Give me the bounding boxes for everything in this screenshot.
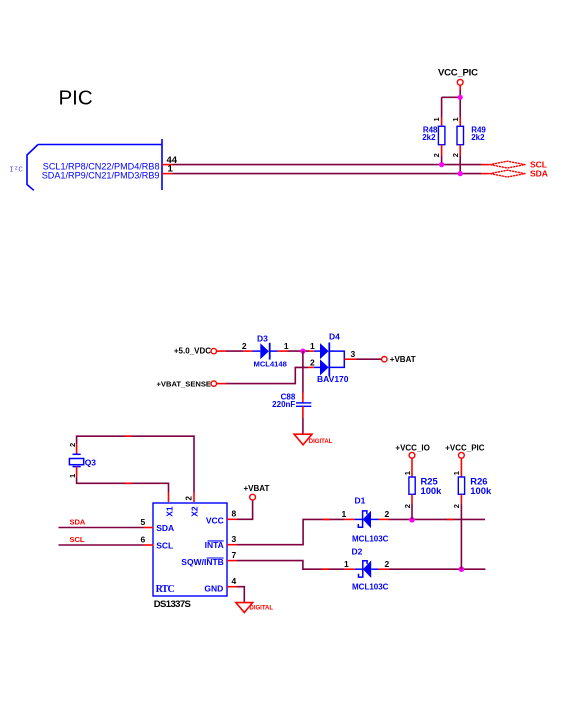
junction dot D3/D4/C88 (300, 349, 305, 354)
pin stub X1 (168, 493, 170, 503)
svg-text:SDA: SDA (70, 517, 86, 526)
power symbol +VBAT (382, 355, 416, 364)
wire D1 pin2 to R25 junction (379, 518, 389, 520)
pin stub 6 (144, 544, 154, 546)
svg-text:VCC: VCC (206, 515, 224, 525)
svg-text:2k2: 2k2 (422, 133, 436, 142)
ground DIGITAL (C88) (294, 434, 333, 445)
junction dot VCC_PIC branch (458, 95, 463, 100)
svg-text:2k2: 2k2 (471, 133, 485, 142)
pin stub 8 (VCC) (227, 518, 237, 520)
power symbol +5.0_VDC (174, 346, 217, 355)
junction dot R48/SCL (439, 162, 444, 167)
svg-text:2: 2 (385, 509, 390, 519)
svg-text:INTA: INTA (205, 540, 224, 550)
resistor R25 (403, 458, 442, 519)
svg-text:100k: 100k (421, 485, 443, 496)
crystal Q3 (68, 443, 97, 478)
power symbol +VBAT (RTC) (244, 484, 270, 500)
dual diode D4 BAV170 (314, 343, 345, 377)
svg-text:D3: D3 (257, 333, 268, 343)
svg-text:D2: D2 (352, 547, 363, 557)
svg-text:GND: GND (204, 583, 223, 593)
wire D4 pin3 to +VBAT (344, 358, 356, 360)
junction dot R49/SDA (458, 171, 463, 176)
wire VCC to +VBAT (237, 500, 253, 519)
wire VCC_PIC down (459, 85, 461, 90)
svg-text:6: 6 (141, 535, 146, 545)
svg-text:3: 3 (232, 534, 237, 544)
diode D1 MCL103C (schottky, cathode left) (355, 511, 379, 529)
wire +5.0_VDC to D3 (217, 350, 227, 352)
svg-text:1: 1 (344, 559, 349, 569)
resistor R49 (451, 117, 487, 173)
svg-text:MCL103C: MCL103C (352, 582, 389, 591)
svg-text:1: 1 (310, 341, 315, 351)
svg-text:2: 2 (385, 559, 390, 569)
svg-text:2: 2 (242, 341, 247, 351)
svg-text:100k: 100k (470, 485, 492, 496)
power symbol VCC_PIC (438, 68, 478, 86)
diode D2 MCL103C (schottky, cathode left) (355, 560, 379, 578)
svg-text:Q3: Q3 (85, 457, 97, 467)
svg-text:VCC_PIC: VCC_PIC (438, 68, 478, 79)
wire SCL net (173, 164, 482, 166)
svg-text:2: 2 (451, 153, 460, 157)
pin stub 4 (GND) (227, 586, 237, 588)
pin stub 7 (SQW/INTB) (227, 560, 237, 562)
svg-text:2: 2 (185, 496, 194, 501)
resistor R48 (422, 117, 445, 164)
pin name INTA (overline) (205, 540, 224, 550)
svg-text:SCL: SCL (156, 540, 173, 550)
svg-text:1: 1 (342, 509, 347, 519)
svg-text:3: 3 (351, 349, 356, 359)
svg-text:4: 4 (232, 576, 237, 586)
svg-text:+VBAT_SENSE: +VBAT_SENSE (156, 379, 211, 388)
junction dot D2/R26 (459, 566, 465, 572)
svg-text:1: 1 (284, 341, 289, 351)
svg-text:2: 2 (310, 357, 315, 367)
diode D3 (253, 343, 278, 360)
svg-text:+VCC_IO: +VCC_IO (395, 444, 429, 453)
svg-text:DIGITAL: DIGITAL (250, 605, 274, 611)
power symbol +VCC_PIC (445, 444, 485, 459)
svg-text:+VCC_PIC: +VCC_PIC (445, 444, 485, 453)
ground DIGITAL (RTC) (236, 603, 273, 613)
wire joint mark (125, 435, 132, 437)
IC U? RTC DS1337S body (153, 503, 227, 596)
svg-text:D1: D1 (355, 496, 366, 506)
pin stub off-page SCL (481, 164, 489, 166)
wire GND to ground (237, 587, 244, 603)
junction dot D1/R25 (409, 517, 415, 523)
wire SCL to pin6 (59, 544, 144, 546)
svg-text:I²C: I²C (9, 166, 23, 175)
svg-text:MCL103C: MCL103C (352, 534, 389, 543)
svg-text:SDA: SDA (156, 523, 174, 533)
pin stub SCL (pin 44) (162, 164, 173, 166)
svg-text:+VBAT: +VBAT (390, 355, 416, 364)
svg-text:X1: X1 (164, 506, 174, 517)
pin name SQW/INTB (overline on INTB) (181, 557, 224, 567)
svg-text:1: 1 (68, 474, 77, 478)
wire SDA net (173, 173, 482, 175)
wire R25 junction to right end (412, 518, 485, 520)
pin stub off-page SDA (481, 173, 489, 175)
svg-text:2: 2 (68, 443, 77, 447)
wire joint mark (323, 518, 330, 520)
wire D2 pin2 to R26 junction (379, 568, 389, 570)
power symbol +VBAT_SENSE (156, 379, 216, 388)
wire D3 to junction (278, 350, 288, 352)
svg-text:RTC: RTC (156, 584, 175, 595)
svg-text:SQW/INTB: SQW/INTB (181, 557, 224, 567)
pin stub D2 pin1 (345, 568, 355, 570)
svg-text:2: 2 (403, 504, 412, 508)
svg-text:PIC: PIC (59, 86, 93, 109)
svg-text:220nF: 220nF (272, 400, 295, 409)
svg-text:2: 2 (432, 153, 441, 157)
svg-text:+5.0_VDC: +5.0_VDC (174, 346, 211, 355)
wire Q3 pin2 to X2 (77, 436, 194, 492)
wire SDA to pin5 (59, 527, 144, 529)
svg-text:+VBAT: +VBAT (244, 484, 270, 493)
PIC block outline (27, 139, 162, 190)
svg-text:DS1337S: DS1337S (154, 599, 191, 610)
svg-text:8: 8 (232, 509, 237, 519)
off-page connector SDA (490, 170, 525, 177)
pin stub D1 pin1 (345, 518, 355, 520)
svg-text:BAV170: BAV170 (317, 374, 349, 384)
svg-text:2: 2 (452, 504, 461, 508)
wire joint mark (125, 482, 132, 484)
svg-text:D4: D4 (329, 331, 340, 341)
svg-text:DIGITAL: DIGITAL (309, 439, 333, 445)
svg-text:SCL: SCL (70, 535, 85, 544)
wire R26 junction to right end (461, 568, 485, 570)
wire SQW/INTB to D2 (237, 561, 345, 570)
svg-text:MCL4148: MCL4148 (254, 360, 287, 369)
svg-text:X2: X2 (190, 506, 200, 517)
svg-text:7: 7 (232, 550, 237, 560)
wire C88 to ground (302, 406, 304, 418)
wire +VBAT_SENSE to D4 pin2 (217, 367, 314, 383)
wire joint mark (322, 568, 329, 570)
resistor R26 (452, 458, 492, 569)
power symbol +VCC_IO (395, 444, 429, 459)
wire junction down to C88 (302, 351, 304, 392)
svg-text:1: 1 (432, 117, 441, 121)
pin stub SDA (pin 1) (162, 173, 173, 175)
svg-text:1: 1 (451, 117, 460, 121)
off-page connector SCL (490, 161, 525, 168)
pin stub 5 (144, 527, 154, 529)
wire Q3 pin1 to X1 (77, 477, 169, 492)
svg-text:SDA: SDA (530, 168, 548, 178)
svg-text:5: 5 (141, 517, 146, 527)
wire INTA to D1 (237, 519, 345, 544)
pin stub X2 (193, 493, 195, 503)
capacitor C88 (296, 403, 311, 406)
svg-text:1: 1 (452, 471, 461, 475)
wire joint mark (447, 518, 454, 520)
svg-text:1: 1 (403, 471, 412, 475)
svg-text:SDA1/RP9/CN21/PMD3/RB9: SDA1/RP9/CN21/PMD3/RB9 (42, 171, 160, 181)
pin stub 3 (INTA) (227, 544, 237, 546)
